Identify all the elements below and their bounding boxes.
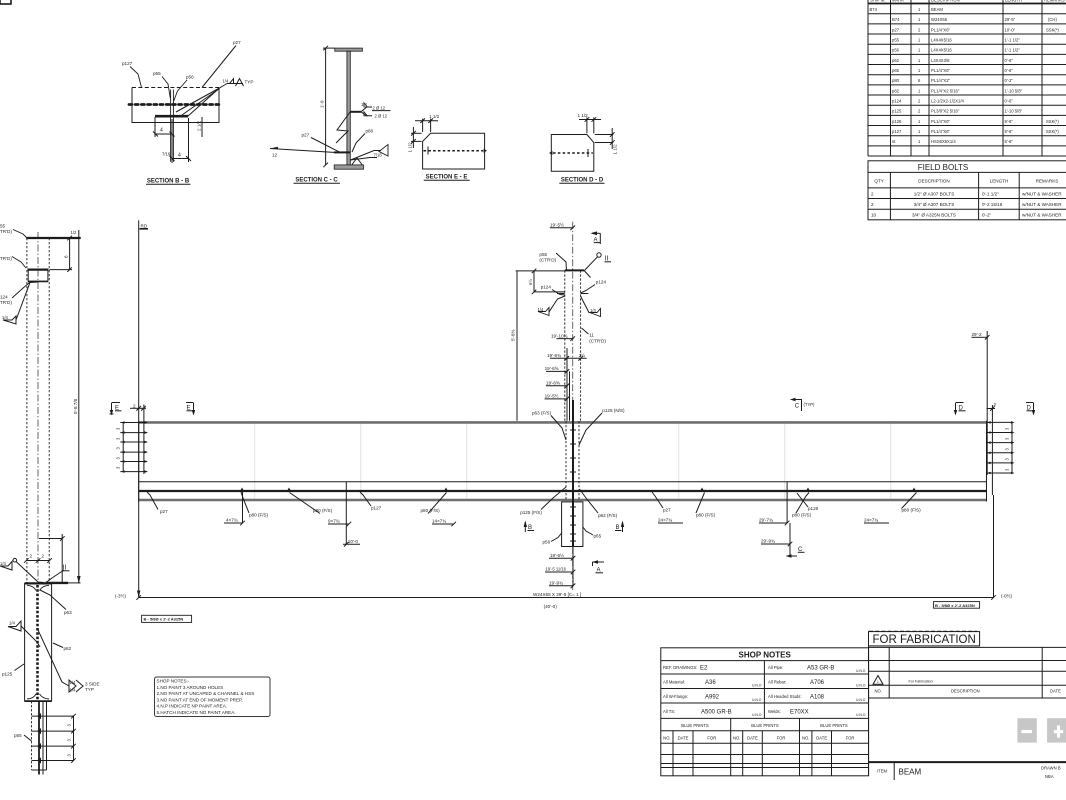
svg-text:19'-5 11/16: 19'-5 11/16 <box>546 567 567 572</box>
svg-text:RD: RD <box>141 224 148 229</box>
flange weld marks <box>352 158 362 165</box>
svg-text:(40'-0): (40'-0) <box>544 604 558 609</box>
svg-text:p65: p65 <box>892 68 900 73</box>
svg-text:(-0½): (-0½) <box>1001 592 1012 598</box>
svg-text:DATE: DATE <box>1050 689 1061 694</box>
svg-text:p125 (N/S): p125 (N/S) <box>602 408 625 413</box>
svg-text:PL3/8"X2 5/16": PL3/8"X2 5/16" <box>931 109 960 114</box>
svg-text:1/4: 1/4 <box>0 561 6 566</box>
svg-text:4: 4 <box>178 153 181 159</box>
weld flags below notches <box>538 308 549 316</box>
svg-text:1/4: 1/4 <box>361 102 367 107</box>
tee flange <box>155 115 188 118</box>
svg-text:w/NUT & WASHER: w/NUT & WASHER <box>1022 213 1062 218</box>
svg-text:2 1/2: 2 1/2 <box>197 120 202 131</box>
svg-text:A500 GR-B: A500 GR-B <box>701 710 732 716</box>
svg-text:A706: A706 <box>810 680 825 686</box>
corner box <box>0 0 11 4</box>
svg-text:10'-0": 10'-0" <box>1005 27 1016 32</box>
shop notes text box <box>155 677 271 717</box>
lower column <box>31 701 33 770</box>
svg-text:FOR: FOR <box>707 736 716 741</box>
svg-text:NO.: NO. <box>663 736 670 741</box>
svg-text:BEAM: BEAM <box>899 768 922 777</box>
svg-text:p80 (F/S): p80 (F/S) <box>249 513 269 518</box>
svg-text:TYP: TYP <box>85 687 94 692</box>
slope line + 12 <box>270 149 336 153</box>
plate edges near beam <box>566 358 568 421</box>
right end field bolts <box>987 422 1013 473</box>
svg-text:SECTION C - C: SECTION C - C <box>295 178 338 184</box>
svg-text:p82 (F/S): p82 (F/S) <box>598 513 618 518</box>
svg-text:DESCRIPTION: DESCRIPTION <box>931 0 960 3</box>
p80 arrows on heavy line <box>240 488 916 492</box>
svg-text:FOR FABRICATION: FOR FABRICATION <box>873 634 976 646</box>
svg-text:p127: p127 <box>371 506 382 511</box>
E markers <box>110 403 196 416</box>
svg-text:3.NO PAINT AT END OF MOMENT PR: 3.NO PAINT AT END OF MOMENT PREP. <box>157 697 243 702</box>
svg-text:1'-10 5/8": 1'-10 5/8" <box>1005 109 1023 114</box>
svg-text:p63 (F/S): p63 (F/S) <box>532 411 552 416</box>
svg-text:19'-6¾: 19'-6¾ <box>547 353 561 358</box>
svg-text:5'-8⅛: 5'-8⅛ <box>511 329 516 341</box>
material list table <box>868 0 1066 156</box>
svg-text:29'-5": 29'-5" <box>1005 17 1016 22</box>
svg-text:TR'D): TR'D) <box>0 256 12 261</box>
svg-text:10'-0: 10'-0 <box>348 539 359 544</box>
svg-text:W24X55: W24X55 <box>931 17 948 22</box>
svg-text:REMARKS: REMARKS <box>1036 179 1059 184</box>
svg-text:QTY: QTY <box>874 179 883 184</box>
svg-text:NBA: NBA <box>1045 774 1054 779</box>
svg-text:SECTION E - E: SECTION E - E <box>426 175 468 181</box>
svg-text:5'-8 7/8: 5'-8 7/8 <box>73 398 78 414</box>
svg-text:1/2" Ø A307 BOLTS: 1/2" Ø A307 BOLTS <box>914 192 955 197</box>
section D-D <box>549 113 618 184</box>
svg-text:1 1/2: 1 1/2 <box>408 142 413 153</box>
zigzag <box>336 112 350 143</box>
svg-text:DESCRIPTION: DESCRIPTION <box>951 689 980 694</box>
svg-text:SECTION B - B: SECTION B - B <box>147 179 190 185</box>
weld ball II <box>597 253 601 257</box>
svg-text:1/4: 1/4 <box>70 680 76 685</box>
hatch bolt line <box>129 103 222 106</box>
svg-text:6: 6 <box>64 255 69 258</box>
center stub through + below beam <box>520 400 624 588</box>
svg-text:MARK: MARK <box>892 0 904 3</box>
svg-text:SHOP NOTES:-: SHOP NOTES:- <box>157 679 190 684</box>
svg-text:SSK(*): SSK(*) <box>1046 27 1059 32</box>
beam ends <box>138 421 140 502</box>
svg-text:124: 124 <box>0 295 8 300</box>
bottom flange <box>139 499 987 502</box>
stub box below <box>562 502 583 547</box>
svg-text:4: 4 <box>160 128 163 134</box>
svg-text:A36: A36 <box>705 680 716 686</box>
bottom weld <box>351 151 382 161</box>
svg-text:1/4: 1/4 <box>538 307 544 312</box>
I-beam web dotted <box>36 585 39 700</box>
svg-text:(CTR'D): (CTR'D) <box>539 258 556 263</box>
svg-text:p56: p56 <box>543 540 551 545</box>
svg-text:p127: p127 <box>892 129 902 134</box>
svg-text:1/4: 1/4 <box>9 621 15 626</box>
svg-text:19'-5½: 19'-5½ <box>545 393 559 399</box>
svg-text:DATE: DATE <box>678 736 689 741</box>
svg-text:24×7¾: 24×7¾ <box>864 518 878 523</box>
p124 box <box>28 270 48 282</box>
top flange <box>139 421 987 424</box>
svg-text:p124: p124 <box>596 280 607 285</box>
svg-text:BLUE PRINTS: BLUE PRINTS <box>820 723 848 728</box>
svg-text:SECTION D - D: SECTION D - D <box>561 178 604 184</box>
svg-text:5.HATCH INDICATE NO PAINT AREA: 5.HATCH INDICATE NO PAINT AREA. <box>157 710 236 715</box>
svg-text:For Fabrication: For Fabrication <box>909 680 933 684</box>
svg-text:U.N.O: U.N.O <box>856 713 866 717</box>
field bolts table <box>868 161 1066 220</box>
bolt callout boxes <box>142 615 192 622</box>
svg-text:p56: p56 <box>892 48 900 53</box>
long dim line <box>78 230 80 583</box>
svg-text:p63: p63 <box>64 610 72 615</box>
beam pass-through box <box>25 583 52 701</box>
plus button <box>1047 718 1066 742</box>
flange curves <box>27 585 36 590</box>
hidden edges above beam <box>564 270 566 421</box>
svg-text:TYP: TYP <box>245 80 254 85</box>
svg-text:REMARKS: REMARKS <box>1044 0 1065 3</box>
svg-text:U.N.O: U.N.O <box>856 684 866 688</box>
svg-text:(CTR'D): (CTR'D) <box>589 339 606 344</box>
svg-text:1/4: 1/4 <box>70 688 76 693</box>
dim 1'-9 <box>323 46 335 167</box>
weld 3 side typ <box>38 630 69 686</box>
svg-text:DRAWN B: DRAWN B <box>1041 766 1061 771</box>
svg-text:0'-2 15/16: 0'-2 15/16 <box>982 202 1003 207</box>
svg-text:p27: p27 <box>160 509 168 514</box>
svg-text:SHOP NOTES: SHOP NOTES <box>739 651 792 660</box>
svg-text:1'-1 1/2": 1'-1 1/2" <box>1005 48 1021 53</box>
svg-text:p82: p82 <box>64 646 72 651</box>
svg-text:All Rebar:: All Rebar: <box>768 680 786 685</box>
svg-text:w/NUT & WASHER: w/NUT & WASHER <box>1022 192 1062 197</box>
svg-text:p80 (F/S): p80 (F/S) <box>696 513 716 518</box>
svg-text:4×7¾: 4×7¾ <box>226 518 238 523</box>
svg-text:p125 (F/S): p125 (F/S) <box>520 510 542 515</box>
svg-text:29'-2: 29'-2 <box>972 332 983 337</box>
svg-text:BLUE PRINTS: BLUE PRINTS <box>681 723 709 728</box>
svg-text:FIELD BOLTS: FIELD BOLTS <box>918 163 969 172</box>
svg-text:2: 2 <box>30 554 33 559</box>
svg-text:LENGTH: LENGTH <box>1005 0 1022 3</box>
A marker top <box>591 231 601 244</box>
svg-text:p27: p27 <box>302 133 310 138</box>
svg-text:REF. DRAWINGS:: REF. DRAWINGS: <box>663 665 697 670</box>
svg-text:U.N.O: U.N.O <box>752 684 762 688</box>
svg-text:p125: p125 <box>2 672 13 677</box>
svg-text:(-3½): (-3½) <box>115 592 126 598</box>
svg-text:LENGTH: LENGTH <box>990 179 1009 184</box>
svg-text:DATE: DATE <box>816 736 827 741</box>
svg-text:19'-6⅝: 19'-6⅝ <box>546 381 560 386</box>
svg-text:BLUE PRINTS: BLUE PRINTS <box>751 723 779 728</box>
svg-text:FOR: FOR <box>846 736 855 741</box>
weld symbol typ <box>188 84 227 117</box>
svg-text:NO.: NO. <box>875 689 882 694</box>
svg-text:U.N.O: U.N.O <box>752 698 762 702</box>
svg-text:L4X4X3/8: L4X4X3/8 <box>931 58 950 63</box>
svg-text:B74: B74 <box>870 7 878 12</box>
svg-text:0'-1 1/2": 0'-1 1/2" <box>982 192 999 197</box>
svg-text:9'-6": 9'-6" <box>1005 119 1014 124</box>
svg-text:B - 5/8Ø x 2'-2 A325N: B - 5/8Ø x 2'-2 A325N <box>935 603 975 608</box>
plate splices <box>345 482 347 501</box>
svg-text:24×7¾: 24×7¾ <box>658 518 672 523</box>
plate p82 end <box>350 111 361 113</box>
svg-text:0'-6": 0'-6" <box>1005 58 1014 63</box>
svg-text:Welds:: Welds: <box>768 709 781 714</box>
svg-text:2: 2 <box>871 202 874 207</box>
weld flags right <box>361 107 372 112</box>
svg-text:p27: p27 <box>892 27 900 32</box>
svg-text:ITEM: ITEM <box>877 769 888 774</box>
svg-text:p82: p82 <box>892 88 900 93</box>
svg-text:2 Ø 12: 2 Ø 12 <box>375 113 388 118</box>
svg-text:29'-7¾: 29'-7¾ <box>759 518 773 523</box>
svg-text:p126: p126 <box>892 119 902 124</box>
svg-text:L4X4X5/16: L4X4X5/16 <box>931 48 952 53</box>
svg-text:p80 (F/S): p80 (F/S) <box>902 508 922 513</box>
svg-text:FOR: FOR <box>777 736 786 741</box>
D markers <box>954 403 1035 416</box>
svg-text:6½: 6½ <box>528 279 533 285</box>
left end field bolts <box>120 405 145 475</box>
svg-text:1: 1 <box>877 680 879 684</box>
A marker bottom <box>592 560 604 573</box>
svg-text:1'-10 5/8": 1'-10 5/8" <box>1005 88 1023 93</box>
svg-text:p55: p55 <box>153 71 161 76</box>
svg-text:C: C <box>795 404 800 410</box>
svg-text:0'-6": 0'-6" <box>1005 68 1014 73</box>
top cap <box>26 237 80 239</box>
svg-text:TR'D): TR'D) <box>0 229 12 234</box>
svg-text:p126: p126 <box>808 506 819 511</box>
svg-text:PL1/4"X6": PL1/4"X6" <box>931 68 951 73</box>
svg-text:10: 10 <box>871 213 877 218</box>
svg-text:All TS:: All TS: <box>663 709 675 714</box>
svg-text:1 1/2: 1 1/2 <box>613 144 618 155</box>
beam bottom annotations <box>147 491 921 558</box>
B markers <box>524 521 625 533</box>
svg-text:1/4: 1/4 <box>223 79 229 84</box>
svg-text:11: 11 <box>589 333 594 338</box>
svg-text:1 1/2: 1 1/2 <box>429 114 440 119</box>
svg-text:A53 GR-B: A53 GR-B <box>807 666 834 672</box>
svg-text:3/4" Ø A325N BOLTS: 3/4" Ø A325N BOLTS <box>912 213 956 218</box>
svg-text:2: 2 <box>133 404 136 409</box>
svg-text:B74: B74 <box>892 17 900 22</box>
dims below stub <box>545 547 575 589</box>
svg-text:SSK(*): SSK(*) <box>1046 129 1059 134</box>
svg-text:HSS6X6X1/4: HSS6X6X1/4 <box>931 139 956 144</box>
svg-text:p27: p27 <box>233 40 241 45</box>
svg-text:55: 55 <box>0 224 6 229</box>
minus button <box>1017 718 1036 742</box>
svg-text:1.NO PAINT 3 AROUND HOLES: 1.NO PAINT 3 AROUND HOLES <box>157 685 224 690</box>
svg-text:BEAM: BEAM <box>931 7 943 12</box>
svg-text:0'-2": 0'-2" <box>982 213 992 218</box>
svg-text:U.N.O: U.N.O <box>752 713 762 717</box>
left column elevation <box>0 224 100 775</box>
main beam elevation <box>110 220 1036 622</box>
dims below <box>153 117 202 163</box>
svg-text:p56: p56 <box>186 75 194 80</box>
svg-text:SHIP M.: SHIP M. <box>870 0 886 3</box>
p27 plate heavy <box>334 151 350 153</box>
svg-text:(TYP): (TYP) <box>804 402 816 407</box>
center stub column above beam <box>511 221 625 590</box>
svg-text:14×7¾: 14×7¾ <box>432 519 446 524</box>
svg-text:All Pipe:: All Pipe: <box>768 665 783 670</box>
revision triangle <box>873 676 883 685</box>
svg-text:p62: p62 <box>892 58 900 63</box>
weld flag with circle <box>0 562 12 571</box>
svg-text:1/2: 1/2 <box>71 230 77 235</box>
svg-text:p65: p65 <box>594 534 602 539</box>
svg-text:All Headed Studs:: All Headed Studs: <box>768 694 802 699</box>
svg-text:PL1/4"X6": PL1/4"X6" <box>931 27 951 32</box>
svg-text:3/4" Ø A307 BOLTS: 3/4" Ø A307 BOLTS <box>914 202 955 207</box>
bottom plate heavy line <box>139 490 987 492</box>
heavy dash near dim <box>45 582 68 584</box>
svg-text:3 SIDE: 3 SIDE <box>85 682 100 687</box>
svg-text:A992: A992 <box>705 695 720 701</box>
svg-text:1'-1 1/2": 1'-1 1/2" <box>1005 38 1021 43</box>
svg-text:L4X4X5/16: L4X4X5/16 <box>931 38 952 43</box>
svg-text:12: 12 <box>272 153 278 158</box>
svg-text:19'-10¾: 19'-10¾ <box>551 333 568 338</box>
centerline <box>37 232 39 583</box>
svg-text:NO.: NO. <box>802 736 809 741</box>
svg-text:(CH): (CH) <box>1048 17 1057 22</box>
svg-text:2 Ø 12: 2 Ø 12 <box>373 105 386 110</box>
C marker bottom <box>790 555 797 557</box>
svg-text:SSK(*): SSK(*) <box>1046 119 1059 124</box>
top cap <box>565 269 584 271</box>
plate body <box>132 88 219 123</box>
svg-text:E2: E2 <box>700 666 708 672</box>
svg-text:PL1/4"X2": PL1/4"X2" <box>931 78 951 83</box>
svg-text:PL1/4"X6": PL1/4"X6" <box>931 129 951 134</box>
svg-text:All W-Flange:: All W-Flange: <box>663 694 688 699</box>
tee stem <box>170 90 172 162</box>
svg-text:U.N.O: U.N.O <box>856 669 866 673</box>
svg-text:p124: p124 <box>892 99 902 104</box>
svg-text:A108: A108 <box>810 695 825 701</box>
svg-text:p55: p55 <box>892 38 900 43</box>
svg-text:p80: p80 <box>892 78 900 83</box>
section C-C <box>270 46 391 184</box>
svg-text:DATE: DATE <box>747 736 758 741</box>
svg-text:p127: p127 <box>122 61 133 66</box>
C marker typ <box>790 398 815 411</box>
svg-text:p55: p55 <box>539 252 547 257</box>
2,2 dims above splice <box>24 534 65 583</box>
svg-text:PL1/4"X2 5/16": PL1/4"X2 5/16" <box>931 88 960 93</box>
dims 6 1/2 left of stub <box>516 269 565 421</box>
svg-text:5'-6": 5'-6" <box>1005 139 1014 144</box>
svg-text:1/4: 1/4 <box>2 315 8 320</box>
beam profile <box>335 48 363 51</box>
bolt cross ticks on center line <box>570 430 576 541</box>
svg-text:9×7¾: 9×7¾ <box>328 519 340 524</box>
svg-text:19'-5½: 19'-5½ <box>550 221 564 227</box>
svg-text:1 1/2: 1 1/2 <box>578 113 589 118</box>
svg-text:p27: p27 <box>663 508 671 513</box>
svg-text:L2-1/2X2-1/2X1/4: L2-1/2X2-1/2X1/4 <box>931 99 964 104</box>
svg-text:19'-9¾: 19'-9¾ <box>549 580 563 585</box>
svg-text:DESCRIPTION: DESCRIPTION <box>918 179 949 184</box>
svg-text:E70XX: E70XX <box>790 710 809 716</box>
svg-text:NO.: NO. <box>733 736 740 741</box>
faint segment ticks <box>255 421 891 501</box>
dim 6 <box>50 236 73 272</box>
centerline <box>572 222 574 590</box>
svg-text:U.N.O: U.N.O <box>856 698 866 702</box>
svg-text:0'-6": 0'-6" <box>1005 99 1014 104</box>
bottom dim line <box>139 597 994 599</box>
svg-text:PL1/4"X6": PL1/4"X6" <box>931 119 951 124</box>
svg-text:2½: 2½ <box>579 352 586 358</box>
svg-text:p55: p55 <box>14 733 22 738</box>
HSS post body hidden lines <box>26 238 28 583</box>
svg-text:2.NO PAINT AT UNCAPED & CHANNE: 2.NO PAINT AT UNCAPED & CHANNEL & HSS <box>157 691 255 696</box>
shop notes table <box>661 648 869 776</box>
bottom plate thin top line <box>139 481 987 483</box>
svg-text:0'-2": 0'-2" <box>1005 78 1014 83</box>
svg-text:1'-9: 1'-9 <box>320 100 325 108</box>
svg-text:p124: p124 <box>541 285 552 290</box>
svg-text:p80 (F/S): p80 (F/S) <box>792 513 812 518</box>
svg-text:4.N.P INDICATE NP PAINT AREA.: 4.N.P INDICATE NP PAINT AREA. <box>157 704 228 709</box>
svg-text:All Material:: All Material: <box>663 680 685 685</box>
svg-text:29'-9¾: 29'-9¾ <box>761 539 775 544</box>
svg-text:19'-6⅝: 19'-6⅝ <box>545 366 559 371</box>
svg-text:TR'D): TR'D) <box>0 300 12 305</box>
svg-text:19'-5½: 19'-5½ <box>550 552 564 558</box>
title block / for fabrication <box>869 631 1066 780</box>
svg-text:7/16: 7/16 <box>374 153 383 158</box>
svg-text:2: 2 <box>871 192 874 197</box>
svg-text:p125: p125 <box>892 109 902 114</box>
svg-text:W24X55 X 29'-5 [C= 1 ]: W24X55 X 29'-5 [C= 1 ] <box>533 592 581 597</box>
grid line left <box>138 220 140 597</box>
section B-B <box>122 40 253 185</box>
svg-text:7/16: 7/16 <box>162 152 171 157</box>
svg-text:9'-6": 9'-6" <box>1005 129 1014 134</box>
svg-text:p80: p80 <box>366 129 374 134</box>
svg-text:w/NUT & WASHER: w/NUT & WASHER <box>1022 202 1062 207</box>
dim stack <box>545 336 587 401</box>
weld flag left mid <box>8 621 21 631</box>
svg-text:2: 2 <box>42 554 45 559</box>
section E-E <box>408 114 488 181</box>
svg-text:1/4: 1/4 <box>590 308 596 313</box>
stub notches <box>557 293 565 295</box>
svg-text:B - 5/8Ø x 2'-2 A325N: B - 5/8Ø x 2'-2 A325N <box>144 617 184 622</box>
bolt ticks <box>32 714 76 763</box>
